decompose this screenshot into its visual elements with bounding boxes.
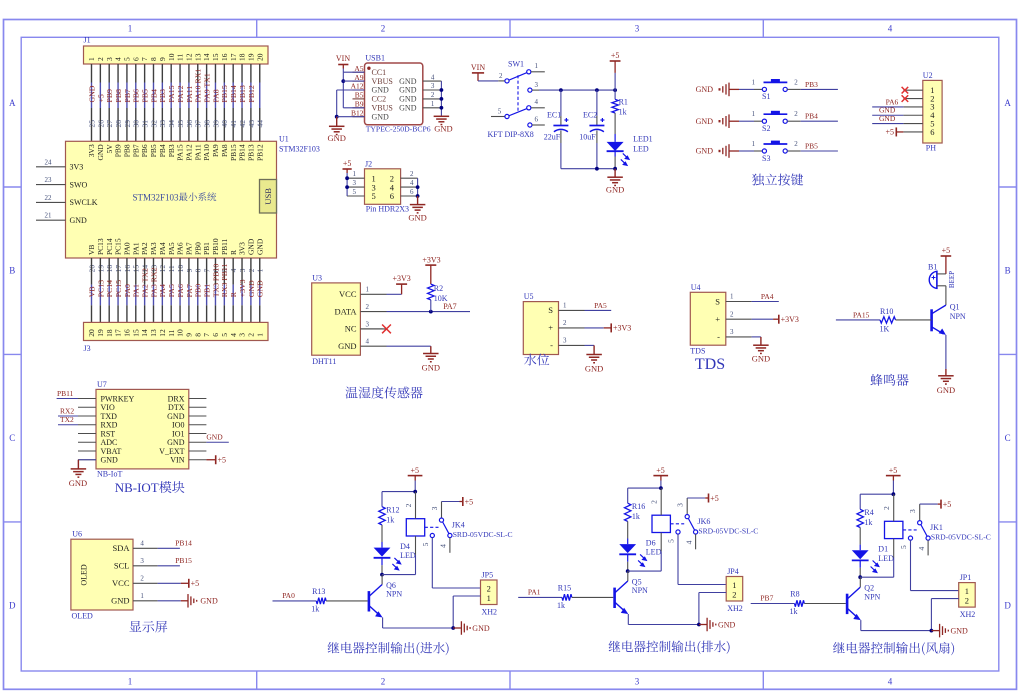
transistor Q2 NPN [846, 594, 849, 614]
no-connect X on U3 NC [360, 328, 382, 330]
U6 VCC to +5 [158, 582, 181, 584]
wire A12/B12 GND to ground [337, 89, 365, 91]
svg-text:VBUS: VBUS [372, 77, 393, 86]
svg-text:3: 3 [366, 320, 370, 328]
svg-text:B1: B1 [928, 263, 937, 272]
relay contact arm [443, 522, 449, 534]
svg-text:U4: U4 [691, 283, 701, 292]
svg-text:DTX: DTX [168, 403, 185, 412]
relay JK6 contact pin 3 to +5 [686, 498, 688, 515]
U6 SCL net PB15 [158, 565, 180, 567]
svg-text:PA7: PA7 [443, 302, 457, 311]
caption buzzer [870, 374, 908, 386]
svg-text:4: 4 [114, 57, 123, 61]
svg-text:SDA: SDA [112, 543, 130, 553]
svg-text:SRD-05VDC-SL-C: SRD-05VDC-SL-C [931, 532, 991, 541]
svg-text:U2: U2 [923, 71, 933, 80]
resistor R12 1k [379, 507, 385, 525]
svg-text:C: C [1005, 433, 1011, 443]
svg-text:S: S [715, 296, 720, 306]
svg-text:VIO: VIO [101, 403, 115, 412]
svg-text:GND: GND [327, 133, 345, 143]
svg-text:R12: R12 [386, 506, 399, 515]
svg-text:+5: +5 [943, 500, 952, 509]
svg-text:PA12: PA12 [176, 85, 185, 102]
svg-text:PA11: PA11 [193, 144, 202, 160]
svg-text:2: 2 [404, 503, 413, 507]
caption temperature humidity sensor [345, 386, 422, 398]
svg-text:1: 1 [366, 286, 370, 294]
svg-text:13: 13 [193, 53, 202, 61]
svg-text:VB: VB [87, 245, 96, 255]
resistor R8 1k at base, net PB7 [751, 603, 795, 605]
svg-text:R2: R2 [434, 284, 443, 293]
push button S3 [762, 149, 766, 153]
svg-text:RX2: RX2 [60, 406, 74, 415]
svg-text:PC13: PC13 [96, 280, 105, 297]
svg-text:3: 3 [431, 82, 435, 90]
svg-text:PC15: PC15 [114, 238, 123, 255]
caption relay output 继电器控制输出(进水) [328, 642, 449, 655]
svg-text:14: 14 [202, 53, 211, 61]
resistor R10 1K at Q1 base [836, 319, 880, 321]
relay contact pin 4 stub [449, 538, 451, 553]
svg-text:CC2: CC2 [372, 95, 387, 104]
svg-text:PB5: PB5 [141, 89, 150, 103]
svg-text:PB14: PB14 [229, 85, 238, 102]
svg-text:+5: +5 [656, 466, 665, 475]
svg-text:GND: GND [696, 147, 714, 156]
LED D1 [852, 550, 869, 559]
svg-text:18: 18 [238, 53, 247, 61]
U7 GND pin to ground [78, 459, 96, 461]
svg-text:2: 2 [366, 303, 370, 311]
svg-text:U1: U1 [279, 135, 289, 144]
resistor R1 1k [614, 90, 616, 99]
svg-text:GND: GND [951, 626, 969, 635]
svg-text:OLED: OLED [72, 612, 94, 621]
wire ground to S2 pin 1 [739, 120, 754, 122]
svg-text:PA0: PA0 [123, 284, 132, 297]
svg-text:GND: GND [70, 216, 88, 225]
svg-text:4: 4 [684, 540, 693, 544]
svg-text:PB5: PB5 [805, 141, 818, 150]
svg-text:USB: USB [263, 188, 273, 205]
caption independent buttons [752, 174, 803, 186]
svg-text:J1: J1 [84, 36, 91, 45]
ground below LED1 [607, 176, 623, 178]
wire S3 pin 2 to net PB5 [787, 150, 800, 152]
svg-text:D: D [1004, 601, 1011, 611]
resistor R4 1k [857, 509, 863, 527]
svg-text:STM32F103: STM32F103 [279, 145, 320, 154]
collector junction node [380, 573, 384, 577]
svg-text:43: 43 [247, 120, 256, 128]
svg-text:PB0: PB0 [193, 242, 202, 255]
svg-text:TDS: TDS [695, 356, 725, 373]
svg-text:1: 1 [140, 592, 144, 600]
svg-text:LED1: LED1 [633, 135, 653, 144]
svg-text:LED: LED [878, 554, 894, 563]
svg-text:PA7: PA7 [185, 242, 194, 255]
svg-text:PB13: PB13 [246, 144, 255, 161]
USB1 right pins to ground [423, 80, 442, 82]
U6 SDA net PB14 [158, 547, 180, 549]
svg-text:11: 11 [176, 54, 185, 61]
svg-text:3: 3 [140, 557, 144, 565]
svg-text:42: 42 [238, 120, 247, 128]
svg-text:+5: +5 [465, 497, 474, 506]
svg-text:32: 32 [149, 120, 158, 128]
LED D6 [619, 544, 636, 553]
svg-text:LED: LED [646, 548, 662, 557]
svg-text:J2: J2 [365, 160, 372, 169]
junction dots on +5V rail [559, 88, 563, 92]
svg-text:TX3 PB10: TX3 PB10 [211, 264, 220, 298]
svg-text:15: 15 [131, 329, 140, 337]
svg-text:26: 26 [96, 120, 105, 128]
svg-text:30: 30 [132, 120, 141, 128]
svg-text:PA0: PA0 [123, 242, 132, 255]
svg-text:NPN: NPN [950, 312, 966, 321]
svg-text:SWO: SWO [70, 180, 88, 189]
svg-text:28: 28 [114, 120, 123, 128]
svg-text:PC15: PC15 [114, 280, 123, 297]
svg-text:5: 5 [498, 107, 502, 115]
svg-text:35: 35 [176, 120, 185, 128]
svg-text:STM32F103: STM32F103 [133, 192, 180, 202]
ground under USB1 left [329, 125, 345, 127]
svg-text:GND: GND [879, 114, 896, 123]
svg-text:3: 3 [563, 337, 567, 345]
svg-text:PB8: PB8 [114, 89, 123, 103]
relay JK4 coil [406, 519, 424, 536]
svg-text:B5: B5 [355, 91, 364, 100]
svg-text:29: 29 [123, 120, 132, 128]
svg-text:IO0: IO0 [172, 421, 184, 430]
svg-text:1: 1 [752, 140, 756, 148]
svg-text:GND: GND [246, 238, 255, 255]
svg-text:37: 37 [194, 120, 203, 128]
bar ground at rail [699, 624, 707, 626]
svg-text:GND: GND [167, 412, 185, 421]
svg-text:4: 4 [439, 544, 448, 548]
svg-text:GND: GND [255, 238, 264, 255]
svg-text:B: B [1005, 266, 1011, 276]
svg-text:6: 6 [390, 191, 394, 201]
svg-text:GND: GND [408, 213, 426, 223]
svg-text:PA15: PA15 [176, 144, 185, 161]
svg-text:Q1: Q1 [950, 303, 960, 312]
svg-text:PA15: PA15 [167, 85, 176, 102]
svg-text:DRX: DRX [168, 394, 185, 403]
svg-text:12: 12 [185, 53, 194, 61]
svg-text:PA8: PA8 [220, 144, 229, 157]
svg-text:S2: S2 [762, 124, 770, 133]
svg-text:GND: GND [206, 433, 223, 442]
svg-text:22uF: 22uF [544, 133, 561, 142]
svg-text:PB6: PB6 [140, 144, 149, 157]
svg-text:20: 20 [87, 329, 96, 337]
svg-text:2: 2 [246, 333, 255, 337]
wire S2 pin 2 to net PB4 [787, 120, 800, 122]
svg-text:+: + [548, 323, 553, 333]
U3 GND wire to ground [387, 345, 431, 347]
svg-text:TX2: TX2 [60, 415, 74, 424]
svg-text:SW1: SW1 [508, 60, 524, 69]
svg-text:1: 1 [128, 677, 133, 687]
svg-text:PA0: PA0 [282, 591, 295, 600]
caption relay output 继电器控制输出(排水) [609, 641, 730, 654]
svg-text:GND: GND [87, 85, 96, 102]
svg-text:4: 4 [888, 24, 893, 34]
LED1 diode [607, 142, 624, 151]
svg-text:3V3: 3V3 [238, 242, 247, 255]
svg-text:27: 27 [105, 120, 114, 128]
svg-text:PA1: PA1 [132, 284, 141, 297]
transistor Q1 NPN [930, 309, 933, 331]
J2 right ground wire [417, 178, 419, 196]
svg-text:1: 1 [563, 302, 567, 310]
svg-text:3V3: 3V3 [87, 144, 96, 157]
relay contact pin 5 to connector [430, 533, 434, 537]
svg-text:5: 5 [123, 57, 132, 61]
relay dashed actuator line [670, 523, 684, 525]
svg-text:VBAT: VBAT [101, 447, 122, 456]
svg-text:2: 2 [381, 24, 386, 34]
svg-text:VCC: VCC [339, 289, 357, 299]
svg-text:1: 1 [255, 333, 264, 337]
resistor R2 10K pull-up [428, 284, 434, 300]
svg-text:EC2: EC2 [583, 111, 597, 120]
svg-text:38: 38 [203, 120, 212, 128]
svg-text:5: 5 [220, 333, 229, 337]
svg-text:5: 5 [667, 539, 676, 543]
svg-text:PH: PH [926, 144, 936, 153]
svg-text:31: 31 [141, 120, 150, 128]
svg-text:1k: 1k [557, 601, 565, 610]
svg-text:JK6: JK6 [698, 517, 711, 526]
svg-text:GND: GND [338, 341, 356, 351]
svg-text:36: 36 [185, 120, 194, 128]
USB1 left pin stubs [353, 71, 365, 73]
svg-text:D4: D4 [400, 542, 410, 551]
SW1 pole 5-4 [491, 116, 505, 118]
svg-text:JP4: JP4 [727, 567, 739, 576]
svg-text:RX3 PB11: RX3 PB11 [220, 263, 229, 297]
svg-text:D: D [9, 601, 16, 611]
svg-text:D1: D1 [878, 545, 888, 554]
svg-text:GND: GND [399, 104, 417, 113]
svg-text:GND: GND [585, 364, 603, 374]
svg-text:JK4: JK4 [452, 521, 465, 530]
svg-text:25: 25 [87, 120, 96, 128]
SW1 pole 2-1 [507, 72, 529, 81]
top rail [628, 487, 661, 489]
JP4 pin to ground rail [699, 592, 726, 594]
svg-text:+5: +5 [611, 51, 620, 60]
svg-text:R: R [229, 250, 238, 255]
push button S2 [762, 119, 766, 123]
relay contact pin 5 to connector [676, 530, 680, 534]
svg-text:GND: GND [372, 112, 390, 121]
svg-text:NC: NC [345, 324, 357, 334]
svg-text:40: 40 [220, 120, 229, 128]
svg-text:18: 18 [105, 329, 114, 337]
svg-text:PB14: PB14 [175, 538, 192, 547]
svg-text:+5: +5 [942, 246, 951, 255]
svg-text:PB5: PB5 [149, 144, 158, 157]
svg-text:GND: GND [434, 124, 452, 134]
svg-text:U5: U5 [524, 292, 534, 301]
svg-text:U7: U7 [97, 380, 107, 389]
svg-text:GND: GND [111, 596, 129, 606]
collector junction node [626, 569, 630, 573]
U5 + pin to +3V3 [585, 327, 604, 329]
svg-text:PB1: PB1 [203, 284, 212, 298]
svg-text:R15: R15 [558, 583, 571, 592]
svg-text:GND: GND [606, 185, 624, 195]
svg-text:34: 34 [167, 120, 176, 128]
svg-text:LED: LED [633, 145, 649, 154]
U7 PWRKEY net PB11 [57, 398, 78, 400]
svg-text:+5: +5 [218, 456, 227, 465]
svg-text:8: 8 [193, 333, 202, 337]
svg-text:+5: +5 [96, 94, 105, 102]
svg-text:NPN: NPN [386, 590, 402, 599]
svg-text:+3V3: +3V3 [392, 274, 410, 283]
svg-text:33: 33 [158, 120, 167, 128]
svg-text:A: A [9, 98, 16, 108]
svg-text:VIN: VIN [336, 54, 350, 63]
svg-text:16: 16 [220, 53, 229, 61]
svg-text:PB8: PB8 [123, 144, 132, 157]
U3 DATA wire to PA7 [387, 311, 471, 313]
svg-text:1k: 1k [790, 607, 798, 616]
transistor Q6 NPN [368, 591, 371, 611]
svg-text:1k: 1k [619, 108, 627, 117]
svg-text:TXD: TXD [101, 412, 118, 421]
svg-text:3: 3 [635, 677, 640, 687]
svg-text:11: 11 [167, 329, 176, 336]
svg-text:4: 4 [410, 179, 414, 187]
svg-text:TYPEC-250D-BCP6: TYPEC-250D-BCP6 [366, 125, 431, 134]
svg-text:GND: GND [696, 117, 714, 126]
svg-text:23: 23 [45, 176, 53, 184]
svg-text:12: 12 [158, 329, 167, 337]
push button S1 [762, 87, 766, 91]
svg-text:C: C [9, 433, 15, 443]
svg-text:PB7: PB7 [131, 144, 140, 157]
svg-text:+3V3: +3V3 [422, 256, 440, 265]
relay contact arm [688, 518, 694, 530]
bar ground at rail [453, 627, 461, 629]
svg-text:3: 3 [676, 503, 685, 507]
resistor R16 1k [625, 503, 631, 521]
svg-text:2: 2 [431, 91, 435, 99]
svg-text:PA5: PA5 [167, 284, 176, 297]
svg-text:GND: GND [937, 385, 955, 395]
resistor R13 1k at base, net PA0 [273, 600, 317, 602]
svg-text:R: R [229, 291, 238, 297]
svg-text:SWCLK: SWCLK [70, 198, 98, 207]
svg-text:13: 13 [149, 329, 158, 337]
svg-text:PB10: PB10 [211, 238, 220, 255]
svg-text:8: 8 [149, 57, 158, 61]
emitter to ground rail [382, 618, 384, 629]
svg-text:Q5: Q5 [632, 577, 642, 586]
svg-text:PB3: PB3 [167, 144, 176, 157]
svg-text:PB4: PB4 [805, 112, 818, 121]
connector J3 (20-pin header) [84, 322, 269, 340]
svg-text:6: 6 [930, 127, 934, 137]
svg-text:B: B [9, 266, 15, 276]
svg-text:PA5: PA5 [167, 242, 176, 255]
svg-text:BEEP: BEEP [948, 271, 956, 288]
svg-text:2: 2 [410, 170, 414, 178]
svg-text:+3V3: +3V3 [238, 279, 247, 297]
U4 - pin to ground [752, 336, 761, 338]
svg-text:GND: GND [200, 597, 218, 606]
relay dashed actuator line [903, 529, 917, 531]
svg-text:PB6: PB6 [132, 89, 141, 103]
U2 pin 5 net GND [872, 123, 903, 125]
svg-text:4: 4 [535, 98, 539, 106]
svg-text:PC14: PC14 [105, 238, 114, 255]
svg-text:+5: +5 [411, 466, 420, 475]
svg-text:21: 21 [45, 212, 53, 220]
relay contact arm [921, 525, 927, 537]
svg-text:10uF: 10uF [579, 133, 596, 142]
svg-text:2: 2 [650, 500, 659, 504]
svg-text:GND: GND [167, 438, 185, 447]
svg-text:NB-IoT: NB-IoT [97, 470, 122, 479]
relay contact pin 4 stub [927, 540, 929, 555]
svg-text:JP5: JP5 [482, 571, 494, 580]
svg-text:DHT11: DHT11 [312, 357, 336, 366]
svg-text:10: 10 [167, 53, 176, 61]
svg-text:SCL: SCL [114, 561, 130, 571]
svg-text:NB-IOT: NB-IOT [115, 480, 159, 495]
no-connect X on U2 pins 1,2 [902, 87, 909, 94]
svg-text:PB0: PB0 [194, 284, 203, 298]
svg-text:2: 2 [499, 72, 503, 80]
emitter to ground rail [860, 620, 862, 631]
svg-text:5: 5 [421, 542, 430, 546]
svg-text:U3: U3 [312, 274, 322, 283]
svg-text:R16: R16 [632, 502, 645, 511]
svg-text:PA1: PA1 [131, 242, 140, 255]
svg-text:PB3: PB3 [158, 89, 167, 103]
ground under USB1 right [434, 115, 450, 117]
svg-text:PB1: PB1 [202, 242, 211, 255]
caption water level [524, 354, 549, 366]
svg-text:1: 1 [128, 24, 133, 34]
svg-text:+5: +5 [885, 128, 894, 137]
U1 left pins 24-21 [36, 166, 66, 168]
svg-text:6: 6 [535, 115, 539, 123]
svg-text:USB1: USB1 [365, 54, 385, 63]
svg-text:3: 3 [730, 328, 734, 336]
svg-text:4: 4 [366, 338, 370, 346]
svg-text:14: 14 [140, 329, 149, 337]
svg-text:PWRKEY: PWRKEY [101, 394, 135, 403]
svg-text:PA2 TX2: PA2 TX2 [141, 268, 150, 297]
svg-text:PB15: PB15 [175, 556, 192, 565]
wire ground to S1 pin 1 [739, 88, 754, 90]
U4 S pin net PA4 [752, 301, 779, 303]
svg-text:1: 1 [431, 100, 435, 108]
